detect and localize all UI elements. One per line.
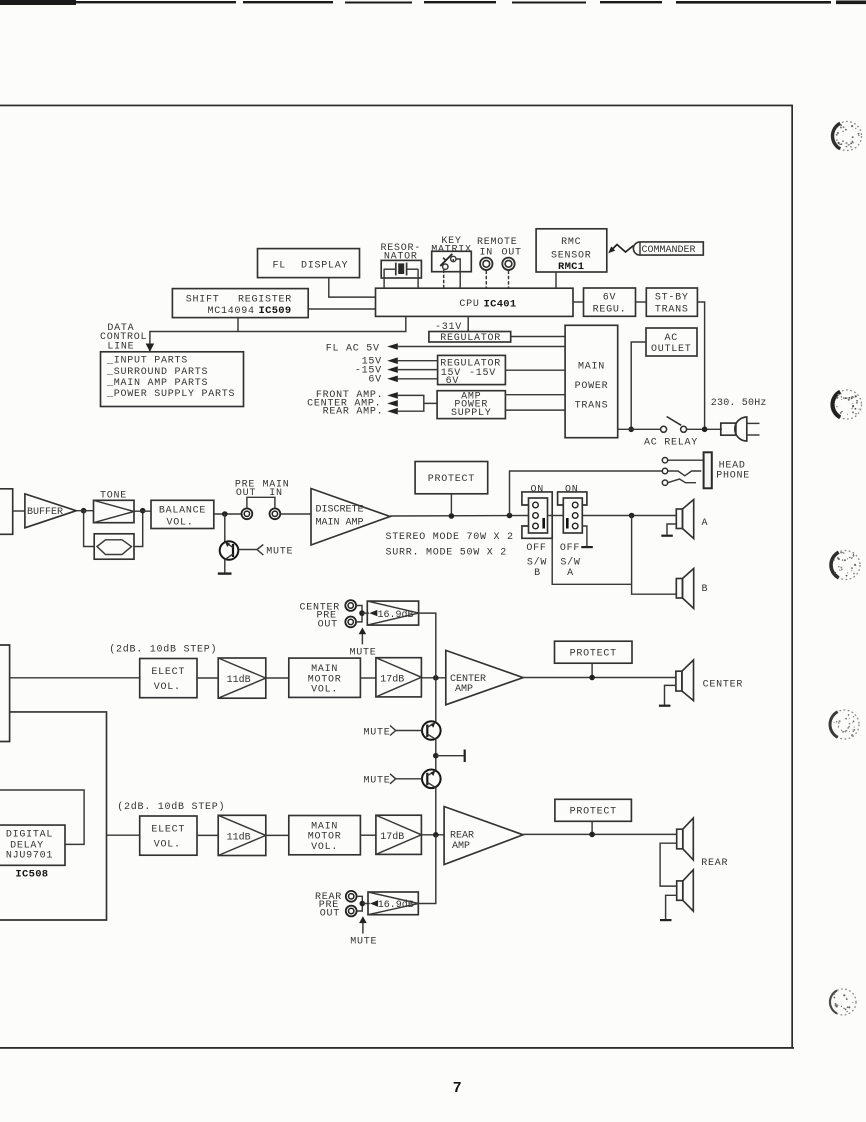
ground main mute	[218, 572, 232, 574]
svg-text:SURR. MODE 50W X 2: SURR. MODE 50W X 2	[386, 547, 508, 558]
wire protect to center line	[591, 663, 593, 677]
wire elect vol to 11dB	[197, 677, 218, 679]
main in jack	[270, 508, 281, 519]
center pre out jack 2	[345, 617, 356, 628]
COMMANDER remote unit	[633, 242, 703, 256]
svg-text:ELECT: ELECT	[151, 667, 185, 678]
svg-text:OUT: OUT	[318, 619, 338, 630]
wire tone to balance	[134, 510, 151, 512]
svg-text:VOL.: VOL.	[166, 518, 193, 529]
svg-text:COMMANDER: COMMANDER	[642, 245, 696, 256]
wire elect vol to 11dB rear	[197, 834, 218, 836]
wire -15V to regulator	[397, 369, 438, 371]
node after buffer	[81, 508, 87, 514]
svg-text:AMP: AMP	[455, 684, 473, 695]
svg-text:MUTE: MUTE	[350, 937, 377, 948]
ST-BY trans box	[646, 288, 697, 316]
svg-text:RMC1: RMC1	[558, 261, 584, 273]
pre out jack	[242, 508, 253, 519]
wires jacks to 16.9dB node	[356, 606, 362, 622]
wire center amp to speaker	[523, 677, 676, 679]
svg-text:VOL.: VOL.	[311, 685, 338, 696]
svg-text:OUT: OUT	[320, 908, 340, 919]
FL DISPLAY box U-FL	[258, 249, 360, 278]
amp power supply box	[437, 391, 505, 419]
svg-text:17dB: 17dB	[380, 831, 404, 843]
MUTE input arrow Q rear	[363, 774, 422, 787]
svg-text:_INPUT PARTS: _INPUT PARTS	[106, 356, 188, 367]
svg-text:STEREO MODE 70W X 2: STEREO MODE 70W X 2	[386, 532, 514, 543]
svg-text:B: B	[534, 568, 541, 579]
wire mute transistor to ground	[224, 559, 226, 573]
label stereo mode power	[386, 532, 514, 559]
svg-text:PROTECT: PROTECT	[570, 649, 617, 660]
label REAR AMP. with arrow	[323, 407, 398, 418]
svg-text:OFF: OFF	[526, 543, 546, 554]
svg-text:FL: FL	[273, 261, 287, 272]
svg-text:OFF: OFF	[560, 543, 580, 554]
resonator X401 label	[380, 243, 421, 263]
rear elect vol box	[140, 816, 197, 855]
svg-text:POWER: POWER	[575, 381, 609, 392]
protect box rear	[555, 799, 632, 821]
wire 6V to regulator	[397, 378, 438, 380]
svg-text:LINE: LINE	[107, 341, 134, 352]
svg-text:TRANS: TRANS	[575, 401, 609, 412]
svg-text:6V: 6V	[368, 375, 382, 386]
svg-text:MUTE: MUTE	[349, 647, 376, 658]
svg-text:-15V: -15V	[469, 368, 496, 379]
svg-text:MC14094: MC14094	[208, 306, 255, 317]
wire -31V regulator to main power trans	[511, 336, 565, 338]
center amp triangle	[446, 650, 523, 704]
node after tone	[140, 508, 146, 514]
rear 16.9dB attenuator	[368, 892, 418, 915]
wire FL AC 5V to main power trans	[397, 346, 566, 348]
svg-text:PHONE: PHONE	[716, 471, 750, 482]
wire discrete amp to speaker switches	[390, 515, 529, 518]
punch hole 5	[830, 989, 856, 1015]
wire ST-BY trans down to AC line	[697, 302, 704, 429]
center 16.9dB attenuator	[367, 601, 418, 625]
svg-text:MAIN: MAIN	[578, 362, 605, 373]
rear source box (cut at left edge)	[0, 712, 107, 920]
discrete main amp triangle	[311, 489, 390, 546]
MUTE input arrow Q center	[363, 726, 422, 739]
wire 16.9dB down to center line	[419, 613, 436, 678]
wire switch B to speaker B line	[552, 538, 631, 584]
rear speaker upper	[677, 818, 694, 860]
wire balance to pre out jack	[214, 513, 242, 515]
wire AC outlet to AC line	[631, 342, 646, 429]
punch hole 1	[833, 122, 862, 151]
node protect junction	[449, 513, 455, 519]
svg-text:_MAIN AMP PARTS: _MAIN AMP PARTS	[106, 378, 208, 389]
node rear pre out branch	[433, 832, 439, 838]
svg-text:REGISTER: REGISTER	[238, 295, 292, 306]
T stub feed	[436, 750, 466, 763]
svg-text:VOL.: VOL.	[154, 682, 181, 693]
svg-text:ON: ON	[530, 485, 544, 496]
svg-text:IC509: IC509	[259, 305, 292, 317]
svg-text:CPU: CPU	[459, 299, 479, 310]
svg-text:AC: AC	[665, 333, 679, 344]
node AC outlet junction	[628, 427, 634, 433]
svg-text:IC401: IC401	[484, 298, 517, 310]
wire node to rear 16.9dB	[362, 903, 370, 905]
svg-text:ST-BY: ST-BY	[655, 293, 689, 304]
wire main motor vol to 17dB	[360, 677, 376, 679]
wire 6V regu to ST-BY trans	[636, 301, 647, 303]
center elect vol box	[140, 659, 197, 698]
ground rear speaker	[660, 895, 677, 921]
AC outlet box	[646, 328, 697, 356]
surround DSP box (cut at left edge)	[0, 645, 10, 742]
label FL AC 5V with arrow	[326, 343, 398, 354]
punch hole 4	[830, 710, 859, 739]
wire main power trans to relay	[618, 428, 661, 430]
svg-text:VOL.: VOL.	[154, 840, 181, 851]
svg-text:REAR AMP.: REAR AMP.	[323, 407, 384, 418]
label FRONT AMP. with arrow	[316, 390, 398, 401]
svg-text:PROTECT: PROTECT	[428, 474, 475, 485]
arrow data bus into parts box	[146, 344, 155, 352]
mute transistor Q main	[220, 541, 239, 560]
svg-text:RMC: RMC	[561, 237, 581, 248]
wire headphone riser	[510, 471, 663, 516]
wire node to 16.9dB box	[362, 612, 369, 614]
wire shift register to CPU	[308, 308, 375, 310]
wires key matrix to CPU	[453, 259, 460, 288]
svg-text:17dB: 17dB	[380, 674, 404, 686]
label PRE OUT	[235, 479, 256, 499]
ground center speaker	[659, 685, 676, 706]
MUTE up arrow center pre out	[349, 628, 376, 659]
svg-text:_SURROUND PARTS: _SURROUND PARTS	[106, 367, 208, 378]
wire DSP to center elect vol	[10, 677, 140, 679]
svg-text:REAR: REAR	[450, 830, 474, 841]
svg-text:REAR: REAR	[701, 858, 728, 869]
svg-text:AC RELAY: AC RELAY	[644, 437, 698, 448]
svg-text:S/W: S/W	[560, 556, 580, 568]
svg-text:SHIFT: SHIFT	[186, 295, 220, 306]
6V regulator box	[584, 288, 636, 316]
wire regulator to main power trans	[505, 369, 565, 371]
RMC sensor RMC1 box	[536, 229, 607, 273]
MUTE up arrow rear pre out	[350, 916, 377, 947]
svg-text:OUT: OUT	[502, 248, 522, 259]
buffer amp triangle	[25, 494, 76, 528]
center 11dB amp	[218, 658, 266, 698]
label 6V with arrow	[368, 375, 397, 386]
wires amp power supply to main power trans	[505, 395, 565, 410]
data control bus	[150, 316, 406, 352]
svg-text:DISCRETE: DISCRETE	[316, 505, 364, 516]
border frame bottom line	[0, 1047, 794, 1049]
label HEAD PHONE	[716, 460, 750, 481]
regulator 15V -15V 6V box	[438, 355, 506, 387]
wire RMC sensor to CPU	[555, 272, 557, 288]
svg-text:CENTER: CENTER	[703, 679, 744, 690]
wire protect to main line	[450, 494, 452, 516]
IR zigzag arrow	[608, 245, 633, 254]
svg-text:VOL.: VOL.	[311, 842, 338, 853]
rear 11dB amp	[218, 815, 266, 855]
wire node to speaker B	[632, 516, 677, 595]
svg-text:11dB: 11dB	[227, 674, 251, 686]
rear pre out jack 2	[346, 906, 357, 917]
top page-edge line	[0, 0, 866, 5]
wire shift register to data bus	[237, 318, 239, 332]
svg-text:ON: ON	[565, 485, 579, 496]
node speaker B branch	[629, 513, 635, 519]
svg-text:MUTE: MUTE	[363, 776, 390, 787]
center main motor vol box	[289, 658, 361, 697]
speaker switch B	[522, 485, 552, 580]
rear speaker lower	[677, 870, 694, 911]
svg-text:PROTECT: PROTECT	[570, 807, 617, 818]
svg-text:REGU.: REGU.	[593, 305, 627, 316]
svg-text:11dB: 11dB	[227, 831, 251, 843]
wire 16.9dB up to rear line	[418, 835, 436, 904]
node headphone branch	[507, 513, 513, 519]
parts list box	[101, 352, 244, 407]
input selector box (cut at left edge)	[0, 489, 13, 535]
svg-text:OUTLET: OUTLET	[651, 344, 692, 355]
wire FL DISPLAY to CPU	[329, 278, 376, 298]
resonator X401 box	[381, 260, 421, 278]
wire 15V to regulator	[397, 360, 438, 362]
label REAR PRE OUT	[315, 892, 342, 919]
wire node down to mute transistor	[224, 514, 226, 542]
border frame right line	[791, 105, 793, 1049]
wire switch B to switch A	[548, 515, 564, 517]
wire relay to plug	[687, 428, 722, 430]
node center pre out	[359, 610, 365, 616]
svg-text:B: B	[702, 584, 709, 595]
rear pre out jack 1	[346, 891, 357, 902]
center pre out jack 1	[345, 600, 356, 611]
node rear protect junction	[589, 832, 595, 838]
-31V regulator box	[429, 332, 511, 345]
svg-text:7: 7	[453, 1079, 461, 1096]
svg-text:(2dB. 10dB STEP): (2dB. 10dB STEP)	[117, 801, 225, 813]
mute transistor Q center	[422, 721, 441, 740]
wire 11dB to main motor vol	[266, 677, 289, 679]
tone bypass wires	[84, 511, 143, 547]
AC relay contacts	[661, 417, 687, 433]
label -15V with arrow	[355, 365, 398, 376]
rear amp triangle	[444, 807, 523, 865]
wire switch A to speaker A	[582, 515, 676, 517]
svg-text:MUTE: MUTE	[266, 546, 293, 557]
protect box center	[555, 641, 633, 663]
protect box main	[415, 462, 488, 494]
svg-text:REGULATOR: REGULATOR	[440, 333, 501, 344]
key matrix label	[431, 236, 472, 255]
wire main in to discrete amp	[280, 513, 311, 515]
AC plug	[721, 417, 760, 441]
tone control box	[94, 500, 135, 522]
wires rear jacks to node	[357, 896, 363, 911]
remote OUT jack J402	[502, 258, 514, 270]
wire branch to lower rear speaker	[660, 843, 677, 886]
ground speaker A	[661, 524, 676, 537]
remote IN jack J401	[480, 258, 492, 270]
svg-text:BALANCE: BALANCE	[159, 505, 206, 516]
svg-text:16.9dB: 16.9dB	[378, 609, 414, 621]
CPU IC401 box	[376, 288, 574, 316]
node center pre out branch	[433, 675, 439, 681]
wire rear amp to speakers	[523, 833, 677, 835]
balance volume box	[151, 500, 214, 528]
digital delay IC508 box	[0, 825, 65, 865]
wire buffer to tone	[76, 510, 93, 512]
label MAIN IN	[262, 479, 289, 499]
speaker A	[676, 500, 693, 539]
headphone jack contacts	[662, 458, 703, 486]
center 17dB amp	[376, 658, 422, 697]
wire CPU to -31V regulator	[467, 316, 469, 331]
mute transistor Q rear	[422, 770, 441, 789]
center speaker	[676, 660, 694, 701]
wire selector to buffer	[13, 510, 25, 512]
rear main motor vol box	[289, 816, 361, 855]
tone defeat box	[94, 534, 134, 559]
wire protect to rear line	[591, 821, 593, 834]
headphone jack body	[704, 452, 712, 488]
digital delay feedback loop wire	[0, 790, 84, 844]
wires amp labels to amp power supply	[397, 395, 438, 411]
wire rear source to elect vol	[107, 834, 140, 836]
svg-text:IC508: IC508	[15, 868, 48, 880]
node center protect junction	[589, 675, 595, 681]
svg-text:REMOTE: REMOTE	[477, 237, 518, 248]
svg-text:TRANS: TRANS	[655, 305, 689, 316]
svg-text:NJU9701: NJU9701	[6, 850, 53, 861]
node ST-BY feed junction	[702, 427, 708, 433]
speaker B	[676, 569, 693, 609]
wire main motor vol to 17dB rear	[360, 834, 376, 836]
node mute branch	[222, 511, 228, 517]
svg-text:6V: 6V	[446, 376, 460, 387]
wire center node down through mute transistors	[435, 678, 437, 722]
wire CPU to 6V regu	[573, 301, 584, 303]
svg-text:ELECT: ELECT	[151, 825, 185, 836]
svg-text:MUTE: MUTE	[363, 727, 390, 738]
node T stub	[433, 753, 439, 759]
svg-text:FL AC 5V: FL AC 5V	[326, 343, 380, 354]
key matrix box with switch	[432, 251, 472, 271]
svg-text:230. 50Hz: 230. 50Hz	[711, 398, 767, 409]
node rear pre out	[360, 901, 366, 907]
svg-text:A: A	[702, 518, 709, 529]
label DATA CONTROL LINE	[100, 323, 147, 352]
punch hole 2	[833, 390, 862, 419]
svg-text:(2dB. 10dB STEP): (2dB. 10dB STEP)	[109, 643, 217, 655]
shift register IC509 box	[172, 289, 308, 318]
wires resonator to CPU	[383, 269, 385, 288]
dashed wires remote jacks to CPU	[485, 271, 487, 289]
main power trans box	[565, 325, 618, 437]
svg-text:DISPLAY: DISPLAY	[301, 261, 348, 272]
wire transistor column down to rear line	[435, 788, 437, 835]
wire 11dB to main motor vol rear	[266, 834, 289, 836]
svg-text:MAIN AMP: MAIN AMP	[316, 518, 364, 529]
svg-text:DIGITAL: DIGITAL	[6, 830, 53, 841]
jumper pre out to main in	[247, 497, 275, 508]
svg-text:BUFFER: BUFFER	[27, 507, 63, 518]
label REMOTE IN OUT	[477, 237, 522, 259]
wire 17dB to center amp	[421, 677, 445, 679]
rear 17dB amp	[376, 815, 422, 854]
label 15V with arrow	[362, 357, 398, 368]
speaker switch A	[558, 485, 593, 580]
svg-text:6V: 6V	[603, 293, 617, 304]
svg-text:_POWER SUPPLY PARTS: _POWER SUPPLY PARTS	[106, 389, 235, 400]
svg-text:S/W: S/W	[527, 556, 547, 568]
svg-text:A: A	[567, 568, 574, 579]
label CENTER PRE OUT	[299, 602, 340, 630]
punch hole 3	[831, 551, 860, 580]
MUTE input arrow main	[238, 545, 293, 558]
svg-text:SUPPLY: SUPPLY	[451, 408, 492, 419]
wire between mute transistors	[435, 739, 437, 772]
svg-text:AMP: AMP	[452, 841, 470, 852]
label CENTER AMP. with arrow	[307, 398, 398, 409]
border frame top line	[0, 105, 792, 107]
svg-text:16.9dB: 16.9dB	[378, 899, 414, 911]
wire 17dB to rear amp	[421, 834, 444, 836]
